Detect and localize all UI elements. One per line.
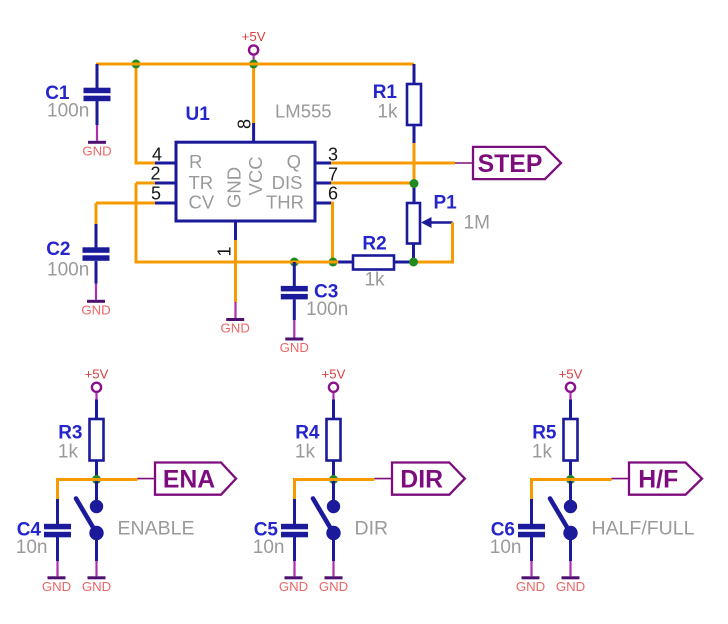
wire lead to DIR flag <box>375 478 393 480</box>
ground C1 <box>96 125 98 141</box>
svg-text:GND: GND <box>319 579 348 594</box>
svg-text:10n: 10n <box>16 537 48 558</box>
svg-text:100n: 100n <box>306 299 348 320</box>
output flag H/F <box>629 463 702 495</box>
svg-text:R5: R5 <box>532 423 557 444</box>
output flag ENA <box>155 463 236 495</box>
svg-text:2: 2 <box>150 164 160 184</box>
capacitor C4 <box>56 499 59 525</box>
svg-text:DIR: DIR <box>400 467 443 494</box>
svg-text:1k: 1k <box>532 442 553 463</box>
pin 4 stub <box>155 162 176 165</box>
svg-text:7: 7 <box>328 165 338 185</box>
switch DIR <box>332 481 335 501</box>
wire node to flag <box>571 478 612 481</box>
resistor R1 <box>413 64 416 85</box>
wire pin8 to rail <box>252 64 255 124</box>
svg-text:10n: 10n <box>253 537 285 558</box>
wire node to flag <box>97 478 138 481</box>
wire Q output net <box>315 162 332 165</box>
output flag STEP <box>473 147 561 179</box>
svg-text:THR: THR <box>266 192 304 213</box>
capacitor C5 <box>293 499 296 525</box>
svg-text:C2: C2 <box>46 239 70 260</box>
wire node to C5 <box>295 480 334 501</box>
svg-text:STEP: STEP <box>478 151 543 178</box>
svg-text:GND: GND <box>556 579 585 594</box>
svg-text:ENABLE: ENABLE <box>118 517 195 539</box>
ground switch <box>95 561 97 576</box>
wire switch to ground <box>332 539 335 561</box>
svg-text:TR: TR <box>189 172 214 193</box>
svg-text:1k: 1k <box>295 442 316 463</box>
ground C2 <box>95 284 97 300</box>
svg-text:R3: R3 <box>58 423 82 444</box>
svg-text:+5V: +5V <box>242 29 266 44</box>
capacitor C6 <box>530 499 533 525</box>
ground C4 <box>56 561 58 576</box>
svg-text:1M: 1M <box>464 213 490 234</box>
junction node R5/switch/flag <box>566 475 575 484</box>
svg-text:GND: GND <box>82 579 111 594</box>
junction node DIS/R1/P1 <box>410 179 419 188</box>
wire CV net <box>96 202 157 205</box>
svg-text:1k: 1k <box>58 442 79 463</box>
svg-text:4: 4 <box>152 145 162 165</box>
wire R3 to node <box>95 460 98 480</box>
wire wiper to bottom of P1 <box>414 223 453 263</box>
svg-text:P1: P1 <box>434 193 458 214</box>
svg-text:5: 5 <box>151 184 161 204</box>
svg-text:8: 8 <box>235 119 255 129</box>
wire R1 to DIS node <box>413 143 416 184</box>
wire THR net <box>315 202 332 205</box>
svg-text:U1: U1 <box>186 104 211 125</box>
wire +5V rail <box>96 63 414 66</box>
junction node P1 bottom / R2 <box>409 258 418 267</box>
wire +5V to R4 <box>332 400 335 421</box>
svg-text:VCC: VCC <box>245 156 266 195</box>
wire R5 to node <box>569 460 572 480</box>
svg-text:ENA: ENA <box>163 467 215 494</box>
svg-text:R4: R4 <box>295 423 320 444</box>
pin 2 stub <box>155 182 176 185</box>
wire pin1 to ground <box>234 240 237 303</box>
wire node to C6 <box>532 480 571 501</box>
capacitor C2 <box>95 224 98 248</box>
junction node R4/switch/flag <box>329 475 338 484</box>
svg-text:+5V: +5V <box>322 367 346 382</box>
junction node THR/R2/timing <box>329 258 338 267</box>
pin 1 stub <box>234 221 237 241</box>
ground C6 <box>530 561 532 576</box>
resistor R5 <box>564 419 578 461</box>
junction node rail/reset <box>132 60 141 69</box>
junction node timing cap C3 <box>290 258 299 267</box>
wire switch to ground <box>95 539 98 561</box>
op IC U1 LM555 body <box>176 142 315 221</box>
ground pin1 <box>234 302 236 318</box>
wire node to flag <box>334 478 375 481</box>
svg-text:H/F: H/F <box>638 467 678 494</box>
svg-text:3: 3 <box>328 145 338 165</box>
resistor R2 <box>333 261 354 264</box>
wire DIS net <box>315 182 332 185</box>
junction node R3/switch/flag <box>92 475 101 484</box>
ground switch <box>569 561 571 576</box>
svg-text:GND: GND <box>280 340 309 355</box>
pin 5 stub <box>155 202 176 205</box>
switch HALF/FULL <box>569 481 572 501</box>
svg-text:GND: GND <box>82 143 111 158</box>
svg-text:GND: GND <box>221 321 250 336</box>
wire R4 to node <box>332 460 335 480</box>
svg-text:+5V: +5V <box>559 367 583 382</box>
wire +5V to R5 <box>569 400 572 421</box>
ground C3 <box>293 320 295 338</box>
svg-text:DIS: DIS <box>272 172 303 193</box>
svg-text:R: R <box>189 151 202 172</box>
svg-text:Q: Q <box>287 151 301 172</box>
ground C5 <box>293 561 295 576</box>
wire node to C4 <box>58 480 97 501</box>
svg-text:R2: R2 <box>362 234 386 255</box>
svg-text:10n: 10n <box>490 537 522 558</box>
svg-text:+5V: +5V <box>85 367 109 382</box>
capacitor C3 <box>293 262 296 287</box>
wire switch to ground <box>569 539 572 561</box>
junction node rail/pin8 <box>249 60 258 69</box>
wire TR net <box>136 182 157 185</box>
svg-text:100n: 100n <box>47 260 89 281</box>
svg-text:GND: GND <box>42 579 71 594</box>
trimmer P1 <box>413 184 416 204</box>
svg-text:1: 1 <box>215 246 235 256</box>
switch ENABLE <box>95 481 98 501</box>
svg-text:CV: CV <box>189 192 215 213</box>
resistor R3 <box>90 419 104 461</box>
resistor R4 <box>327 419 341 461</box>
svg-text:LM555: LM555 <box>275 101 332 122</box>
wire reset net <box>136 64 157 163</box>
wire lead to H/F flag <box>612 478 630 480</box>
svg-text:1k: 1k <box>377 102 398 123</box>
svg-text:1k: 1k <box>364 270 385 291</box>
ground switch <box>332 561 334 576</box>
wire lead to ENA flag <box>138 478 156 480</box>
capacitor C1 <box>96 64 99 89</box>
output flag DIR <box>392 463 465 495</box>
svg-text:GND: GND <box>224 167 245 208</box>
svg-text:100n: 100n <box>47 101 89 122</box>
svg-text:R1: R1 <box>373 82 398 103</box>
svg-text:DIR: DIR <box>355 517 389 539</box>
svg-text:GND: GND <box>279 579 308 594</box>
wire +5V to R3 <box>95 400 98 421</box>
svg-text:HALF/FULL: HALF/FULL <box>592 517 695 539</box>
svg-text:GND: GND <box>81 302 110 317</box>
svg-text:6: 6 <box>328 184 338 204</box>
svg-text:GND: GND <box>516 579 545 594</box>
wire lead to STEP flag <box>455 162 473 164</box>
